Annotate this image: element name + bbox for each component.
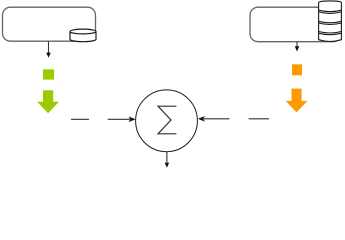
wire right box down [296, 42, 298, 47]
green arrow [37, 90, 59, 113]
sigma glyph [158, 106, 176, 134]
database cylinder left [70, 29, 96, 42]
orange arrow [286, 89, 308, 113]
process box right [250, 7, 341, 42]
green square [43, 69, 54, 79]
wire node down [166, 152, 168, 163]
summation node [136, 90, 198, 152]
dashed wire right [204, 118, 269, 120]
database stack right [319, 1, 342, 42]
process box left [3, 7, 96, 41]
dashed wire left [71, 118, 130, 120]
wire left box down [48, 42, 50, 54]
orange square [292, 64, 302, 75]
